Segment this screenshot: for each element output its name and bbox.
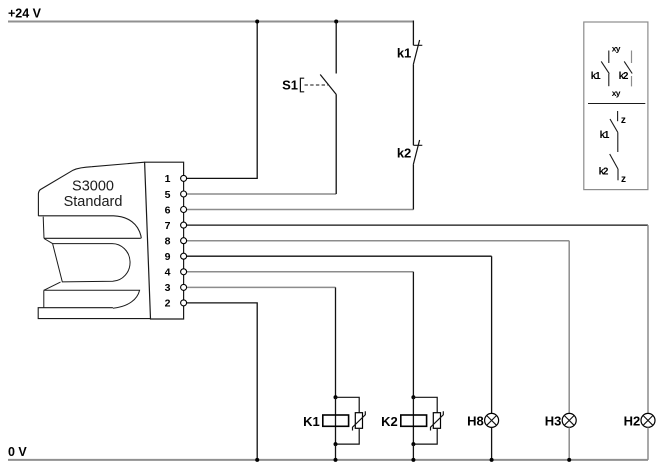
svg-text:S3000: S3000: [72, 178, 114, 194]
svg-text:6: 6: [165, 204, 171, 216]
relay coil K1: [323, 415, 349, 426]
wire pin3 riser down to K1: [335, 287, 337, 397]
wire pin8 to H3 (gray): [187, 240, 569, 242]
0V rail: [8, 459, 648, 461]
wire through K2 coil: [412, 397, 414, 444]
svg-text:3: 3: [165, 282, 171, 294]
switch S1 actuator dashed link: [305, 84, 329, 86]
junction on 0V rail at H3: [567, 458, 571, 462]
scanner window D-shape: [53, 244, 130, 282]
wire pin4 to K2 (gray): [187, 271, 414, 273]
wire H8 to 0V rail: [491, 427, 493, 460]
svg-text:5: 5: [165, 189, 171, 201]
svg-text:0 V: 0 V: [8, 445, 27, 459]
contact k2 seat bar: [413, 144, 422, 146]
wire H3 to 0V rail (gray): [568, 427, 570, 460]
scanner fold line: [44, 282, 61, 290]
switch S1 actuator bracket: [300, 78, 304, 92]
svg-text:8: 8: [165, 236, 171, 248]
svg-text:4: 4: [165, 267, 171, 279]
wire pin8 riser down to H3 (gray): [568, 241, 570, 414]
svg-text:S1: S1: [282, 77, 298, 92]
junction K2 bottom: [411, 442, 415, 446]
junction K1 bottom: [334, 442, 338, 446]
junction on +24V rail at pin1 riser: [255, 20, 259, 24]
svg-text:k2: k2: [397, 145, 411, 160]
junction K2 top: [411, 395, 415, 399]
wire pin7 to H2: [187, 224, 648, 226]
varistor branch K2 bottom wire: [413, 429, 437, 444]
legend box: [584, 22, 648, 190]
legend contact k2 top stub (gray): [631, 51, 633, 64]
svg-text:k1: k1: [397, 45, 411, 60]
scanner lower body top line: [44, 290, 140, 308]
svg-text:H8: H8: [467, 413, 484, 428]
junction on +24V rail at S1 branch: [334, 20, 338, 24]
wire K2 to 0V rail: [412, 444, 414, 460]
wire +24V to S1 top: [335, 22, 337, 74]
+24V rail: [8, 21, 413, 23]
junction on 0V rail at K1: [334, 458, 338, 462]
varistor across K1: [355, 413, 362, 429]
legend series contact k2 blade: [610, 154, 618, 169]
legend contact k1 bottom stub: [608, 74, 610, 87]
svg-text:xy: xy: [612, 88, 621, 98]
wire +24V corner down to k1: [412, 21, 414, 46]
wire pin2 to 0V rail: [187, 303, 257, 460]
wire pin6 to k2 (gray): [187, 209, 414, 211]
contact k1 blade: [413, 40, 419, 64]
wire pin5 to S1 (gray): [187, 193, 336, 195]
wire pin4 riser down to K2: [412, 272, 414, 398]
wire k1 to k2: [412, 64, 414, 145]
varistor branch K1 top wire: [336, 397, 360, 413]
wire pin9 riser down to H8: [491, 256, 493, 413]
scanner neck to window connector slant: [44, 239, 53, 244]
legend contact k2 blade: [624, 61, 632, 73]
legend series contact k1 blade: [610, 119, 618, 132]
legend node z top stub: [617, 111, 619, 121]
svg-text:Standard: Standard: [64, 194, 123, 210]
junction K1 top: [334, 395, 338, 399]
junction on 0V rail at H8: [490, 458, 494, 462]
contact k1 seat bar: [413, 44, 422, 46]
scanner base plate: [38, 308, 150, 319]
wire pin7 riser down to H2 (gray): [647, 225, 649, 413]
varistor branch K2 top wire: [413, 397, 437, 413]
svg-text:K1: K1: [303, 414, 320, 429]
wire K1 to 0V rail: [335, 444, 337, 460]
scanner lower body left edge: [43, 290, 45, 307]
svg-text:H3: H3: [545, 413, 562, 428]
junction on 0V rail at K2: [411, 458, 415, 462]
varistor branch K1 bottom wire: [336, 429, 360, 444]
wire pin3 to K1 (gray): [187, 286, 336, 288]
wire through K1 coil: [335, 397, 337, 444]
svg-text:+24 V: +24 V: [8, 6, 42, 20]
junction on 0V rail at pin2 drop: [255, 458, 259, 462]
svg-text:2: 2: [165, 298, 171, 310]
legend contact k1 top stub: [608, 51, 610, 64]
wire pin1 to +24V rail: [187, 22, 257, 179]
scanner head bottom edge: [38, 216, 141, 239]
legend divider: [588, 103, 645, 105]
scanner neck left edge: [42, 217, 45, 239]
svg-text:9: 9: [165, 251, 171, 263]
lamp H8: [485, 413, 499, 427]
svg-text:7: 7: [165, 220, 171, 232]
legend contact k2 bottom stub (gray): [631, 76, 633, 86]
connector block: [145, 162, 184, 319]
varistor across K2: [433, 413, 440, 429]
wire k2 bottom to pin6 row: [412, 164, 414, 209]
svg-text:K2: K2: [381, 414, 398, 429]
relay coil K2: [401, 415, 427, 426]
legend series mid stub: [617, 132, 619, 152]
lamp H3: [562, 413, 576, 427]
contact k2 blade: [413, 140, 419, 164]
legend contact k1 blade: [601, 61, 609, 73]
wire H2 to 0V rail (gray): [647, 427, 649, 460]
legend node z bottom stub: [617, 169, 619, 180]
lamp H2: [641, 413, 655, 427]
scanner S3000 head outline: [38, 162, 144, 216]
wire S1 bottom to pin5 row: [335, 95, 337, 194]
svg-text:1: 1: [165, 173, 171, 185]
svg-text:xy: xy: [612, 44, 621, 54]
wire pin9 to H8: [187, 255, 492, 257]
svg-text:H2: H2: [624, 413, 641, 428]
switch S1 blade: [320, 75, 336, 95]
scanner neck bottom line: [44, 237, 141, 239]
